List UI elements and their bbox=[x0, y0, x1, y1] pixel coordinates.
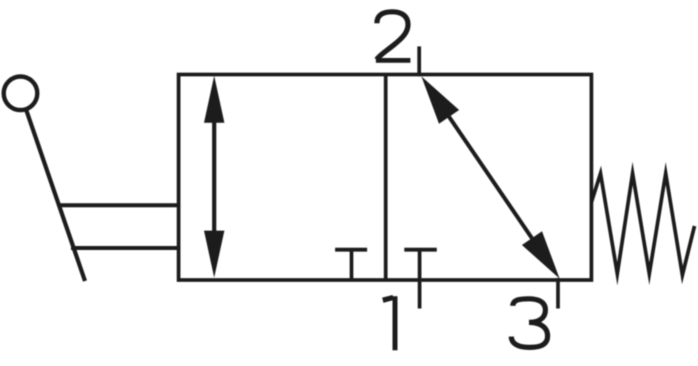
port label 1 bbox=[383, 296, 395, 350]
lever link lower bar bbox=[71, 246, 180, 250]
return spring bbox=[592, 174, 695, 276]
lever link upper bar bbox=[59, 203, 181, 207]
port 3 stub bbox=[556, 278, 560, 309]
diagonal flow-path arrow (right chamber, 2 to 3) bbox=[421, 76, 559, 278]
closed port T stem (left chamber) bbox=[350, 250, 354, 280]
chamber divider bbox=[384, 75, 388, 281]
vertical flow-path arrow (left chamber) bbox=[204, 76, 224, 278]
closed port T bar (left chamber) bbox=[335, 248, 367, 252]
lever knob (ball handle) bbox=[4, 77, 38, 111]
lever arm bbox=[26, 109, 85, 281]
port 2 stub bbox=[417, 46, 421, 76]
port 1 stub with closed-port T stem bbox=[418, 250, 422, 309]
port label 2 bbox=[376, 12, 411, 61]
port label 3 bbox=[511, 299, 547, 348]
valve body (two-position box) bbox=[179, 75, 592, 281]
closed port T bar (right chamber, port 1) bbox=[404, 248, 437, 252]
